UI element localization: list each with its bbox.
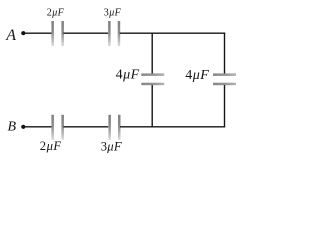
wire capacitor C5 to capacitor C6 [63,126,108,128]
svg-text:A: A [5,27,16,44]
capacitor C1 2uF right plate [61,21,64,46]
wire capacitor C3 down to bottom wire [151,85,153,127]
wire right edge down to capacitor C4 [224,33,226,74]
svg-text:2μF: 2μF [40,139,62,153]
capacitor C3 4uF top plate [141,73,164,76]
wire top junction down to capacitor C3 [151,33,153,74]
svg-text:2μF: 2μF [47,8,65,19]
capacitor C5 2uF left plate [51,115,54,140]
svg-text:B: B [8,120,17,135]
capacitor C5 2uF right plate [61,115,64,140]
wire capacitor C4 down to bottom-right corner [224,85,226,127]
capacitor C1 2uF left plate [51,21,54,46]
wire capacitor C1 to capacitor C2 [63,32,108,34]
capacitor C6 3uF left plate [108,115,111,140]
wire capacitor C2 to top-right corner [120,32,226,34]
svg-text:4μF: 4μF [185,68,209,83]
capacitor C4 4uF bottom plate [213,83,236,86]
wire node A to capacitor C1 [25,32,52,34]
capacitor C6 3uF right plate [118,115,121,140]
capacitor C3 4uF bottom plate [141,83,164,86]
node B terminal dot [21,125,25,129]
wire node B to capacitor C5 [25,126,52,128]
svg-text:3μF: 3μF [101,139,122,153]
svg-text:4μF: 4μF [116,68,140,83]
svg-text:3μF: 3μF [104,8,122,19]
node A terminal dot [21,31,25,35]
capacitor C2 3uF left plate [108,21,111,46]
capacitor C2 3uF right plate [118,21,121,46]
capacitor C4 4uF top plate [213,73,236,76]
wire capacitor C6 to bottom-right corner [120,126,225,128]
